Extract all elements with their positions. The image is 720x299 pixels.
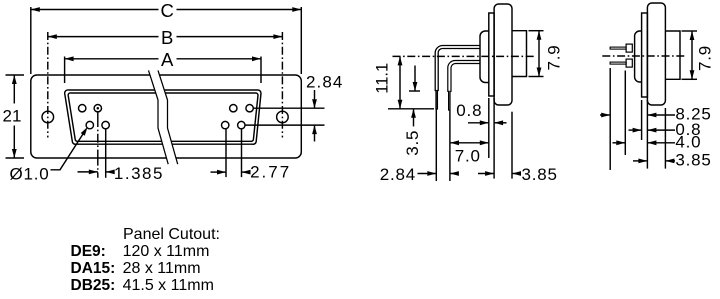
svg-text:21: 21 <box>3 107 22 126</box>
svg-text:3.85: 3.85 <box>522 165 558 184</box>
svg-text:2.84: 2.84 <box>380 165 416 184</box>
svg-text:2.84: 2.84 <box>306 73 344 92</box>
svg-text:3.85: 3.85 <box>675 151 711 170</box>
svg-text:DE9:: DE9: <box>71 243 106 260</box>
svg-text:Panel Cutout:: Panel Cutout: <box>123 226 220 243</box>
svg-text:4.0: 4.0 <box>675 133 701 152</box>
svg-text:C: C <box>161 0 174 21</box>
svg-text:B: B <box>161 27 173 48</box>
svg-text:Ø1.0: Ø1.0 <box>10 165 50 184</box>
svg-text:DB25:: DB25: <box>71 277 116 294</box>
svg-text:11.1: 11.1 <box>374 63 392 94</box>
svg-text:DA15:: DA15: <box>71 260 116 277</box>
svg-text:28 x 11mm: 28 x 11mm <box>123 260 201 277</box>
svg-text:7.9: 7.9 <box>544 44 563 70</box>
svg-text:0.8: 0.8 <box>456 101 482 120</box>
svg-text:41.5 x 11mm: 41.5 x 11mm <box>123 277 214 294</box>
svg-text:7.0: 7.0 <box>455 147 481 166</box>
svg-text:7.9: 7.9 <box>696 45 715 71</box>
svg-text:2.77: 2.77 <box>250 162 291 181</box>
svg-text:3.5: 3.5 <box>403 130 422 156</box>
svg-text:1.385: 1.385 <box>114 164 164 183</box>
svg-text:120 x 11mm: 120 x 11mm <box>123 243 210 260</box>
svg-text:A: A <box>161 49 174 70</box>
